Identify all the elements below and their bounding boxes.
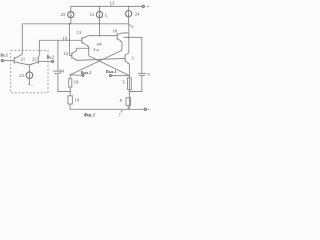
wire Q14 emitter to Q3 base	[77, 58, 126, 60]
svg-text:13: 13	[77, 30, 82, 35]
Q3 emitter arrowhead	[128, 63, 130, 64]
transistor Q10 bar	[116, 33, 118, 40]
wire top rail end dash	[147, 5, 150, 7]
CS25 arrowhead	[70, 15, 72, 17]
wire R18 bottom	[69, 87, 71, 96]
junction dot rail cs12	[99, 23, 100, 24]
wire bottom rail	[70, 108, 144, 110]
transistor Q22 bar	[37, 57, 39, 64]
terminal output2	[82, 74, 84, 76]
junction dot bottom rail R8	[128, 109, 129, 110]
wire cs23 bottom	[28, 79, 30, 85]
svg-text:23: 23	[19, 73, 24, 78]
wire stub cs25 top	[70, 6, 72, 11]
terminal output1	[109, 75, 111, 77]
transistor Q14 collector	[72, 48, 89, 54]
junction dot right cap branch	[128, 37, 129, 38]
svg-text:19: 19	[75, 98, 80, 103]
terminal input2	[52, 60, 54, 62]
wire cap9 lower	[129, 76, 141, 92]
svg-text:15: 15	[62, 36, 67, 41]
wire stub cs12 top	[99, 6, 101, 11]
wire Q10 emitter down	[121, 42, 123, 50]
transistor Q10 collector	[117, 33, 129, 35]
wire diagonal A to output node	[89, 56, 130, 76]
terminal top right	[142, 5, 144, 7]
current source CS25 circle	[68, 12, 74, 18]
label 7 tick	[121, 110, 122, 113]
transistor Q3 collector	[125, 53, 129, 56]
svg-text:21: 21	[21, 57, 26, 62]
wire 23 end arrowhead	[28, 84, 30, 86]
resistor R5	[128, 78, 132, 90]
junction dot R18 node	[70, 74, 71, 75]
wire Q13 collector to Q10 base	[89, 35, 118, 37]
wire diagonal B to R18 node	[70, 50, 122, 75]
terminal input1	[1, 60, 3, 62]
Q13 emitter arrowhead	[87, 45, 89, 47]
Q14 emitter arrowhead	[75, 59, 77, 61]
junction dot rail 15	[69, 23, 70, 24]
current source CS24 circle	[126, 11, 132, 17]
svg-text:Вх.1: Вх.1	[0, 53, 7, 57]
wire 15 link down to Q14 base	[69, 40, 71, 55]
wire Q13 emitter down	[88, 47, 90, 56]
Q10 emitter arrowhead	[120, 40, 122, 42]
junction dot top rail cs24	[128, 6, 129, 7]
wire output2 stub	[70, 74, 82, 76]
wire capacitor 24 branch upper	[57, 40, 59, 71]
svg-text:25: 25	[61, 12, 66, 17]
CS24 arrow	[128, 11, 130, 16]
transistor Q22 collector	[38, 54, 39, 58]
CS23 arrowhead	[29, 76, 31, 78]
wire stub cs25 bottom	[70, 18, 72, 24]
wire base line Q22 collector riser	[39, 40, 82, 54]
transistor Q13 bar	[81, 37, 83, 44]
junction dot baseline crossing	[69, 40, 70, 41]
wire top rail	[71, 5, 142, 7]
svg-text:4 ⊕: 4 ⊕	[93, 47, 99, 52]
wire output1 lead	[111, 75, 129, 77]
junction dot node4	[99, 35, 100, 36]
svg-text:10: 10	[112, 28, 117, 33]
wire bottom rail end dash	[148, 108, 150, 110]
wire right cap branch top	[124, 37, 142, 73]
CS12 arrowhead	[99, 15, 101, 17]
wire stub cs24 bottom	[128, 17, 130, 24]
capacitor C9 plates	[138, 73, 146, 75]
wire capacitor 24 branch lower	[58, 74, 70, 92]
junction dot output node	[129, 75, 130, 76]
svg-text:Фиг. 1: Фиг. 1	[84, 113, 96, 118]
transistor Q21 bar	[13, 57, 15, 64]
current source CS23 circle	[26, 72, 33, 79]
wire cs12 bottom to node	[99, 18, 101, 36]
svg-text:24: 24	[59, 68, 64, 73]
transistor Q21 collector	[14, 54, 22, 58]
CS12 arrow	[99, 12, 101, 17]
transistor Q3 emitter	[125, 61, 129, 64]
transistor Q14 bar	[71, 53, 73, 59]
junction dot top rail cs12	[99, 6, 100, 7]
resistor R19	[68, 96, 73, 104]
wire 15 link rail to base line	[68, 24, 70, 41]
svg-text:Вых.1: Вых.1	[106, 70, 117, 74]
svg-text:18: 18	[74, 80, 79, 85]
resistor R18	[69, 79, 72, 88]
resistor R8	[126, 98, 131, 106]
dashed box input stage	[11, 50, 48, 93]
label 13 tick	[110, 5, 112, 6]
terminal bottom right	[144, 108, 146, 110]
wire right column upper	[128, 24, 130, 53]
svg-text:Вых.2: Вых.2	[81, 71, 92, 75]
svg-text:14: 14	[63, 51, 68, 56]
junction dot R18 R19	[70, 91, 71, 92]
wire R18 top stub	[69, 75, 71, 79]
wire R8 bottom stub	[127, 105, 129, 109]
Q21 emitter arrowhead	[27, 64, 29, 65]
transistor Q13 collector	[82, 36, 89, 39]
Q22 emitter arrowhead	[30, 64, 32, 65]
svg-text:12: 12	[90, 12, 95, 17]
wire input1 lead	[3, 60, 14, 62]
capacitor C24 plates	[53, 71, 61, 73]
transistor Q13 emitter	[82, 42, 89, 47]
svg-text:13: 13	[110, 1, 115, 6]
transistor Q14 emitter	[72, 57, 77, 60]
svg-text:22: 22	[32, 57, 37, 62]
transistor Q10 emitter	[117, 38, 122, 42]
wire R19 to bottom rail	[69, 104, 71, 109]
junction dot Q13 emitter / Q14 collector	[88, 48, 89, 49]
transistor Q22 emitter	[29, 62, 38, 65]
CS25 arrow	[70, 12, 72, 17]
junction dot R5 R8	[129, 91, 130, 92]
wire input2 lead	[38, 60, 51, 62]
svg-text:24: 24	[135, 12, 140, 17]
CS23 arrow	[28, 73, 30, 78]
current source CS12 circle	[96, 12, 102, 18]
transistor Q21 emitter	[14, 62, 29, 65]
wire right column lower	[128, 64, 130, 109]
wire left riser to Q21 collector	[21, 24, 23, 55]
transistor Q3 bar	[124, 55, 126, 61]
junction dot rail cs25	[70, 23, 71, 24]
CS24 arrowhead	[128, 15, 130, 17]
wire common emitters to cs23	[28, 65, 30, 72]
wire mid rail	[22, 23, 128, 25]
label 2 tick	[129, 24, 131, 25]
wire stub cs24 top	[128, 6, 130, 10]
